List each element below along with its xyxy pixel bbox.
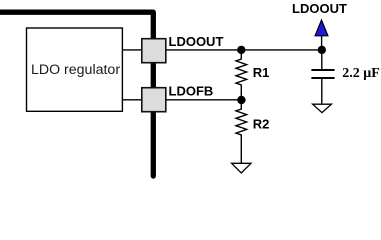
- pin LDOOUT: [142, 39, 166, 63]
- wire LDOFB net: [122, 99, 241, 101]
- net arrow LDOOUT: [315, 20, 328, 36]
- svg-text:LDOOUT: LDOOUT: [169, 34, 224, 49]
- LDO regulator block: [27, 28, 123, 111]
- capacitor C1 2.2uF: [321, 50, 323, 69]
- svg-text:LDOFB: LDOFB: [169, 83, 214, 98]
- node B (LDOFB / R1 / R2 junction): [237, 96, 245, 104]
- ground (below R2): [232, 163, 251, 173]
- node A (LDOOUT / R1 junction): [237, 46, 245, 54]
- node C (output cap junction): [318, 46, 326, 54]
- svg-text:R1: R1: [253, 65, 270, 80]
- wire LDOOUT net: [122, 49, 322, 51]
- svg-text:LDO regulator: LDO regulator: [31, 62, 120, 78]
- resistor R2: [236, 100, 247, 163]
- power trace (thick bus): [0, 12, 153, 176]
- svg-text:LDOOUT: LDOOUT: [292, 1, 347, 16]
- svg-text:R2: R2: [253, 116, 270, 131]
- svg-text:2.2 μF: 2.2 μF: [342, 66, 380, 81]
- ground (below C1): [313, 104, 332, 112]
- resistor R1: [236, 50, 247, 100]
- pin LDOFB: [142, 88, 166, 112]
